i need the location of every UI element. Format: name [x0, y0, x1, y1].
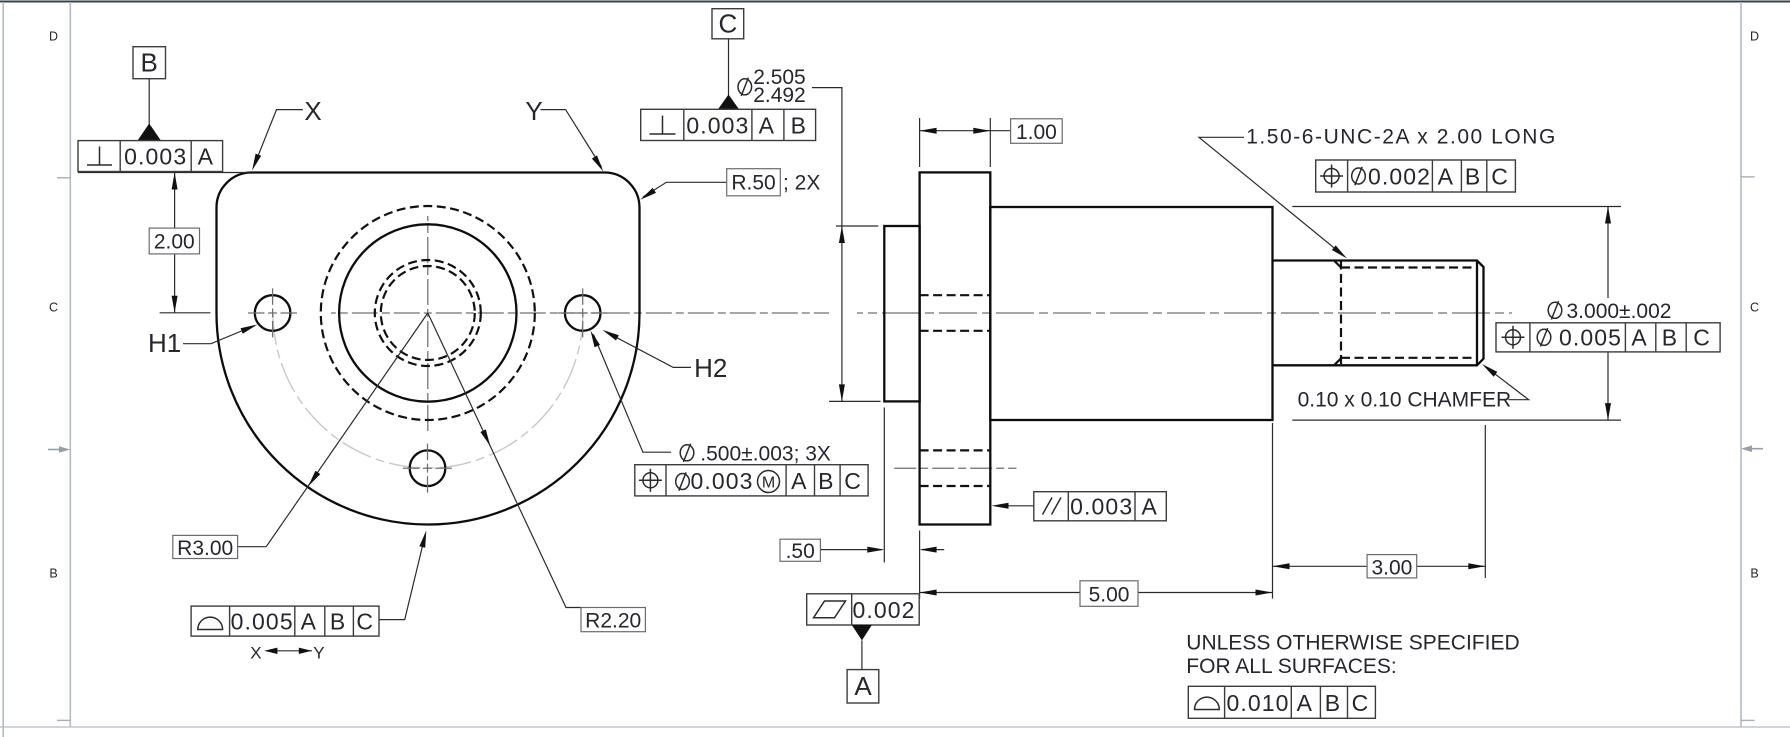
svg-text:A: A	[759, 112, 775, 138]
svg-text:A: A	[854, 671, 872, 701]
svg-text:0.005: 0.005	[1559, 324, 1622, 350]
svg-text:.50: .50	[786, 540, 815, 563]
svg-text:0.10 x 0.10 CHAMFER: 0.10 x 0.10 CHAMFER	[1298, 388, 1512, 411]
svg-text:C: C	[844, 468, 862, 494]
svg-text:B: B	[1325, 690, 1341, 716]
svg-text:A: A	[1141, 493, 1157, 519]
svg-text:R.50: R.50	[731, 172, 775, 195]
svg-text:B: B	[1750, 567, 1758, 581]
svg-text:; 2X: ; 2X	[783, 172, 820, 195]
svg-text:X: X	[250, 643, 261, 662]
svg-text:M: M	[762, 475, 775, 492]
svg-text:B: B	[818, 468, 834, 494]
svg-text:B: B	[791, 112, 807, 138]
svg-text:UNLESS OTHERWISE SPECIFIED: UNLESS OTHERWISE SPECIFIED	[1186, 631, 1519, 654]
svg-text:0.002: 0.002	[852, 597, 915, 623]
svg-text:D: D	[1750, 30, 1759, 44]
svg-text:2.492: 2.492	[753, 84, 806, 107]
svg-text:X: X	[304, 96, 321, 126]
svg-text:A: A	[791, 468, 807, 494]
svg-text:0.003: 0.003	[686, 112, 749, 138]
svg-text:A: A	[1438, 164, 1454, 190]
svg-text:Y: Y	[313, 643, 324, 662]
svg-text:B: B	[330, 609, 346, 635]
svg-text:C: C	[1693, 324, 1711, 350]
svg-text:A: A	[1631, 324, 1647, 350]
svg-text:FOR ALL SURFACES:: FOR ALL SURFACES:	[1186, 655, 1396, 678]
svg-text:B: B	[141, 48, 158, 78]
svg-text:H2: H2	[694, 353, 727, 383]
svg-text:C: C	[356, 609, 374, 635]
svg-text:A: A	[301, 609, 317, 635]
svg-text:0.005: 0.005	[231, 609, 294, 635]
svg-text:B: B	[49, 567, 57, 581]
svg-text:C: C	[719, 9, 738, 39]
svg-text:0.003: 0.003	[1070, 493, 1133, 519]
svg-text:C: C	[49, 301, 58, 315]
svg-text:A: A	[198, 144, 214, 170]
svg-text:5.00: 5.00	[1089, 583, 1130, 606]
svg-text:R2.20: R2.20	[585, 610, 641, 633]
svg-text:1.00: 1.00	[1016, 121, 1057, 144]
svg-text:B: B	[1465, 164, 1481, 190]
svg-text:0.003: 0.003	[691, 468, 754, 494]
svg-text:C: C	[1750, 301, 1759, 315]
svg-text:A: A	[1297, 690, 1313, 716]
svg-text:.500±.003; 3X: .500±.003; 3X	[700, 443, 831, 466]
svg-text:Y: Y	[525, 96, 542, 126]
svg-text:0.002: 0.002	[1368, 164, 1431, 190]
svg-text:1.50-6-UNC-2A x 2.00 LONG: 1.50-6-UNC-2A x 2.00 LONG	[1246, 125, 1557, 148]
svg-text:3.000±.002: 3.000±.002	[1567, 300, 1672, 323]
svg-text:H1: H1	[148, 328, 181, 358]
svg-text:C: C	[1352, 690, 1370, 716]
svg-text:D: D	[49, 30, 58, 44]
svg-text:0.010: 0.010	[1226, 690, 1289, 716]
svg-text:C: C	[1491, 164, 1509, 190]
svg-text:R3.00: R3.00	[177, 537, 233, 560]
svg-text:2.00: 2.00	[154, 231, 195, 254]
svg-text:3.00: 3.00	[1371, 556, 1412, 579]
svg-text:0.003: 0.003	[124, 144, 187, 170]
svg-text:B: B	[1662, 324, 1678, 350]
